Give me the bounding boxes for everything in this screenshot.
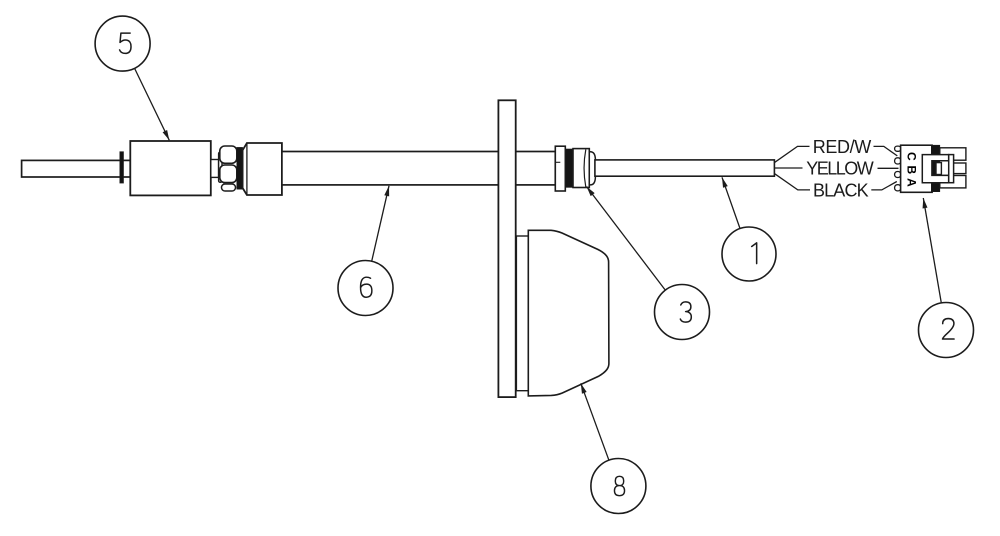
mounting flange plate	[498, 100, 515, 397]
connector prong bottom	[940, 176, 966, 188]
hex nut lower flat	[220, 165, 237, 183]
svg-text:B: B	[905, 165, 919, 174]
leader arrow for 8	[581, 383, 609, 460]
balloon circle 6	[338, 261, 393, 316]
connector latch right bar	[949, 155, 954, 183]
balloon circle 2	[919, 303, 974, 358]
wire RED/W lead-in	[775, 146, 810, 162]
threaded dark band	[566, 149, 573, 187]
digit 5	[120, 33, 131, 53]
connector small window	[936, 163, 941, 175]
balloon circle 3	[655, 285, 710, 340]
collar ring on rod	[120, 152, 124, 183]
stub between block and nut	[211, 160, 219, 178]
hex nut bottom face	[222, 184, 236, 191]
ferrule cylinder	[243, 143, 282, 195]
main tube (item 6)	[282, 152, 555, 185]
gasket strip behind bell	[516, 236, 528, 391]
wire RED/W lead-out	[874, 146, 898, 156]
balloon circle 1	[722, 227, 776, 281]
digit 1	[752, 243, 757, 264]
svg-text:BLACK: BLACK	[813, 181, 869, 201]
balloon circle 8	[591, 459, 646, 514]
leader arrow for 6	[372, 186, 389, 261]
wire BLACK lead-in	[775, 174, 810, 190]
wire YELLOW lead-in	[775, 167, 803, 169]
digit 8	[614, 476, 624, 495]
gland nut	[573, 149, 589, 188]
washer step line	[555, 161, 560, 163]
ferrule crease line	[246, 143, 248, 195]
dark thread gap band	[237, 147, 243, 189]
bell housing (item 8)	[528, 230, 609, 396]
connector dark band	[931, 145, 940, 192]
sensor body block (item 5)	[130, 141, 211, 195]
connector prong top	[940, 148, 966, 160]
connector strain bumps	[895, 146, 901, 191]
svg-text:YELLOW: YELLOW	[806, 159, 874, 179]
digit 6	[361, 277, 372, 297]
digit 3	[680, 302, 691, 322]
wire YELLOW lead-out	[878, 167, 899, 169]
connector notch dark stripe	[931, 161, 936, 177]
hex nut left face	[219, 152, 222, 182]
fitting washer collar (item 3 area)	[555, 146, 565, 191]
leader arrow for 3	[587, 187, 666, 291]
svg-text:C: C	[905, 152, 919, 161]
dome cap	[589, 152, 595, 185]
digit 2	[943, 319, 955, 339]
leader arrow for 1	[722, 177, 740, 228]
gland nut inner curve	[584, 150, 586, 188]
connector latch clip	[922, 155, 948, 183]
wire BLACK lead-out	[871, 182, 897, 190]
leader arrow for 2	[923, 198, 941, 303]
cable (item 1)	[595, 160, 775, 176]
probe rod (sensing tip)	[22, 160, 131, 177]
connector body (item 2)	[901, 145, 933, 192]
svg-text:A: A	[905, 178, 919, 187]
svg-text:RED/W: RED/W	[813, 137, 872, 157]
leader arrow for 5	[135, 68, 170, 140]
hex nut upper flat	[220, 146, 237, 163]
connector prong middle	[950, 163, 966, 174]
balloon circle 5	[95, 16, 150, 71]
